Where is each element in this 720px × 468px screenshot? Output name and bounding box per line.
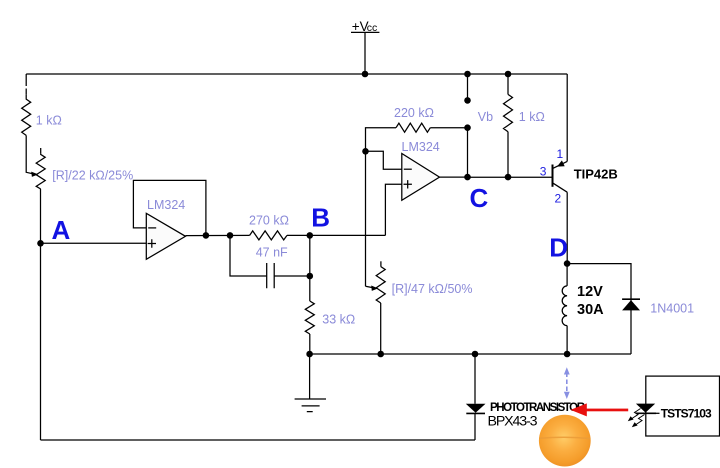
terminal dot Vb upper [464, 97, 471, 104]
wire Vb upper segment [467, 74, 469, 100]
junction dot top rail / Vb branch [464, 71, 471, 78]
junction dot U1 output/feedback [203, 232, 210, 239]
phototransistor D2 bar [466, 412, 485, 414]
wire 220k right leg [430, 127, 467, 129]
box TSTS7103 [646, 376, 720, 436]
wire collector down to node D [566, 192, 568, 263]
resistor R 1 kOhm (left) [22, 94, 31, 135]
resistor 270 kOhm [250, 231, 287, 240]
svg-text:TIP42B: TIP42B [574, 167, 618, 182]
junction dot top rail / 1k right [505, 71, 512, 78]
transistor Q1 TIP42B bar [552, 165, 554, 187]
potentiometer [R]/47k top stub [380, 261, 382, 266]
wire bottom mid rail [310, 353, 631, 355]
svg-text:220 kΩ: 220 kΩ [394, 106, 434, 120]
wire Vb lower segment to node C [467, 128, 469, 177]
wire phototransistor bottom leg [474, 413, 476, 440]
terminal dot Vb lower / 220k junction [464, 124, 471, 131]
junction dot Vcc/top rail [362, 71, 369, 78]
wire node D to inductor [566, 264, 568, 286]
transistor Q1 emitter diagonal [553, 161, 568, 168]
wire phototransistor top leg [474, 354, 476, 404]
svg-text:[R]/47 kΩ/50%: [R]/47 kΩ/50% [392, 282, 473, 296]
op-amp U1 LM324 triangle [146, 213, 185, 259]
wiper arrowhead pot2 [366, 286, 375, 288]
wire LED stub right [655, 412, 660, 414]
junction dot capacitor branch [227, 232, 234, 239]
inductor L1 coil [562, 286, 567, 326]
LED D3 triangle [636, 404, 655, 413]
svg-text:12V: 12V [577, 284, 603, 300]
wire node D to diode branch [567, 264, 631, 354]
wire U2 minus input [366, 151, 402, 169]
svg-text:Vb: Vb [478, 110, 493, 124]
junction dot 33k/ground [306, 351, 313, 358]
wire node B to op-amp U2 plus branch [310, 234, 386, 236]
wire 220k left leg [366, 128, 397, 152]
wire U1 output [186, 234, 250, 236]
node D dot [564, 260, 571, 267]
svg-text:2: 2 [555, 191, 562, 205]
junction dot phototransistor top [472, 351, 479, 358]
node C dot [464, 174, 471, 181]
transistor Q1 emitter arrowhead (PNP) [557, 160, 565, 166]
svg-text:1: 1 [557, 147, 564, 161]
svg-text:PHOTOTRANSISTOR: PHOTOTRANSISTOR [490, 402, 586, 414]
wire node A down left side [40, 243, 42, 440]
op-amp U1 minus glyph [148, 227, 156, 229]
blue double arrow [564, 367, 570, 399]
LED emission arrow 2 [632, 415, 645, 428]
op-amp U2 minus glyph [404, 168, 412, 170]
potentiometer [R]/47k body [376, 267, 385, 304]
wire 1k right top leg [507, 74, 509, 94]
svg-text:1 kΩ: 1 kΩ [519, 110, 545, 124]
LED D3 bar [636, 412, 656, 414]
phototransistor D2 triangle [466, 404, 486, 413]
svg-text:A: A [52, 215, 71, 245]
diode D1 1N4001 bar [622, 298, 640, 300]
wire node C to base of Q1 [468, 176, 553, 178]
wire Vcc drop [364, 32, 366, 74]
svg-text:3: 3 [540, 164, 547, 178]
wire ground stub [309, 354, 311, 399]
wire node B down to 33k [309, 235, 311, 301]
resistor 33 kOhm [305, 301, 314, 334]
svg-text:33 kΩ: 33 kΩ [322, 312, 355, 326]
svg-text:LM324: LM324 [402, 140, 440, 154]
ground symbol [295, 399, 326, 412]
wire left drop from rail [25, 74, 27, 94]
diode D1 1N4001 triangle [622, 300, 640, 310]
node B dot [307, 232, 314, 239]
svg-text:[R]/22 kΩ/25%: [R]/22 kΩ/25% [52, 168, 133, 182]
wire U2 input junction vertical down to pot2 [365, 151, 367, 286]
wiper arrowhead pot1 [31, 172, 38, 177]
svg-text:BPX43-3: BPX43-3 [488, 414, 538, 430]
op-amp U2 LM324 triangle [402, 154, 440, 201]
wire node A to op-amp U1 + input [41, 242, 147, 244]
svg-text:D: D [549, 232, 568, 262]
potentiometer [R]/22k top stub [40, 148, 42, 154]
LED emission arrow 1 [628, 409, 641, 422]
wire 1k bottom to wiper arrow [26, 135, 34, 174]
svg-text:LM324: LM324 [147, 198, 185, 212]
junction dot U2 input node [362, 148, 369, 155]
wire U2 plus input riser [385, 184, 401, 235]
node A dot [37, 240, 44, 247]
resistor 1 kOhm (right) [504, 94, 513, 131]
svg-text:1N4001: 1N4001 [650, 301, 694, 315]
svg-text:C: C [470, 183, 489, 213]
wire pot1 to node A [40, 189, 42, 243]
transistor Q1 collector diagonal [553, 183, 568, 192]
power +Vcc bar [351, 31, 379, 33]
junction dot inductor bottom [564, 351, 571, 358]
svg-text:270 kΩ: 270 kΩ [249, 213, 289, 227]
op-amp U2 plus glyph [404, 180, 412, 188]
resistor 220 kOhm [396, 123, 430, 132]
svg-text:TSTS7103: TSTS7103 [661, 407, 712, 421]
wire 33k to bottom rail [309, 334, 311, 354]
wire pot2 to bottom rail [380, 303, 382, 354]
junction dot pot2 bottom [377, 351, 384, 358]
op-amp U1 plus glyph [148, 239, 156, 247]
wire capacitor branch left [230, 235, 267, 276]
svg-text:1 kΩ: 1 kΩ [36, 114, 62, 128]
junction dot 1k bottom on base wire [505, 174, 512, 181]
red arrow (light path) [571, 403, 629, 416]
wire emitter to top rail [566, 74, 568, 161]
wire U1 feedback loop [133, 180, 206, 235]
wire 270k to node B [287, 234, 310, 236]
svg-text:47 nF: 47 nF [256, 246, 288, 260]
junction dot cap right [307, 273, 314, 280]
svg-text:B: B [311, 203, 330, 233]
wire top rail [26, 73, 567, 75]
wire capacitor right [274, 275, 310, 277]
potentiometer [R]/22k body [36, 154, 45, 189]
wire inductor to bottom rail [566, 326, 568, 354]
wire bottom left rail [41, 439, 476, 441]
svg-text:30A: 30A [577, 302, 604, 318]
wire U2 output to node C [440, 176, 468, 178]
capacitor 47 nF plates [267, 263, 275, 288]
power +Vcc label [352, 19, 378, 34]
wire 1k right bottom leg [507, 132, 509, 177]
